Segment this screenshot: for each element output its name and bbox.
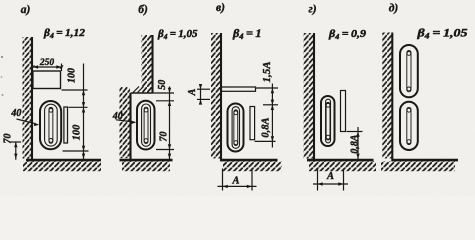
svg-text:50: 50	[157, 80, 168, 90]
svg-text:а): а)	[21, 4, 31, 16]
svg-text:β4 = 1: β4 = 1	[232, 28, 262, 41]
svg-text:г): г)	[308, 4, 316, 16]
svg-text:β4 = 1,05: β4 = 1,05	[416, 28, 467, 41]
svg-text:д): д)	[389, 3, 399, 15]
svg-text:40: 40	[10, 108, 21, 119]
svg-text:β4 = 1,12: β4 = 1,12	[43, 27, 86, 40]
svg-text:0,8А: 0,8А	[261, 117, 272, 137]
svg-text:0,8А: 0,8А	[350, 134, 361, 154]
svg-text:β4 = 0,9: β4 = 0,9	[328, 28, 367, 41]
svg-text:в): в)	[216, 2, 225, 14]
svg-text:б): б)	[138, 4, 148, 16]
svg-text:1,5А: 1,5А	[261, 61, 273, 82]
svg-text:100: 100	[67, 68, 78, 83]
svg-text:А: А	[326, 171, 334, 182]
svg-text:100: 100	[72, 124, 83, 141]
svg-text:А: А	[187, 88, 198, 96]
svg-text:70: 70	[159, 132, 170, 142]
svg-text:β4 = 1,05: β4 = 1,05	[157, 28, 198, 41]
svg-text:250: 250	[39, 58, 55, 68]
svg-text:А: А	[231, 176, 239, 187]
